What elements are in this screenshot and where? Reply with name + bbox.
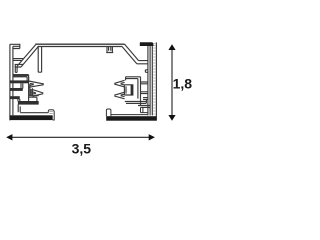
bottom bar left bbox=[10, 115, 53, 120]
horizontal dimension line bbox=[11, 136, 150, 138]
channel vertical bbox=[21, 83, 23, 88]
clip 1 left bbox=[29, 81, 44, 87]
bottom-right lip bbox=[106, 109, 111, 116]
shelf y75 bbox=[13, 75, 29, 81]
bottom-left lip hatch bbox=[49, 112, 53, 114]
svg-text:3,5: 3,5 bbox=[72, 140, 92, 156]
left wall bbox=[10, 44, 13, 120]
middle block right verticals bbox=[138, 77, 141, 106]
left columns bbox=[29, 77, 33, 101]
vertical dim arrowheads bbox=[168, 44, 175, 50]
step down from R3 bbox=[18, 99, 20, 101]
step shelf under clip2 bbox=[29, 96, 39, 102]
lower bottom pair bbox=[138, 106, 150, 108]
lower shelf band bbox=[18, 101, 39, 105]
rung band 3 bbox=[10, 96, 20, 99]
top tab bbox=[106, 46, 113, 52]
right wall hatching bbox=[153, 43, 156, 114]
clip B middle bbox=[114, 92, 124, 99]
clip 2 left bbox=[32, 90, 43, 97]
middle block top bbox=[126, 77, 141, 80]
top-right cap bbox=[140, 42, 154, 46]
conductor box bbox=[124, 85, 133, 95]
step to bottom inner bbox=[18, 104, 20, 112]
block bottom shelf bbox=[125, 102, 146, 104]
inner shelf left bbox=[13, 59, 24, 61]
vertical dimension line bbox=[171, 49, 173, 116]
bottom inner surface left bbox=[20, 112, 48, 114]
bottom inner surface right bbox=[111, 114, 148, 116]
small shelf under slope bbox=[15, 64, 23, 67]
svg-text:1,8: 1,8 bbox=[173, 76, 193, 92]
hanging divider bar bbox=[38, 46, 41, 72]
horizontal dim arrowheads bbox=[6, 134, 12, 140]
right wall outer line bbox=[155, 42, 157, 120]
rung band 2 bbox=[10, 88, 23, 91]
clip A middle bbox=[114, 80, 124, 87]
arm lower bbox=[141, 92, 148, 94]
wall rung y98 bbox=[143, 98, 148, 104]
block foot connector bbox=[141, 107, 148, 112]
descended face right bbox=[137, 61, 148, 64]
right descend diagonal bbox=[122, 44, 139, 64]
bottom bar right bbox=[106, 116, 156, 121]
right wall inner lines bbox=[148, 46, 152, 115]
top-left ledge bbox=[10, 44, 20, 48]
main top face bbox=[35, 44, 124, 46]
sloped top-left wall bbox=[17, 45, 38, 67]
bottom-left lip bbox=[48, 110, 54, 120]
wall rung y70 bbox=[145, 70, 148, 73]
slot pocket left bbox=[15, 64, 17, 72]
rung band 1 bbox=[10, 80, 29, 83]
arm upper bbox=[141, 82, 148, 84]
